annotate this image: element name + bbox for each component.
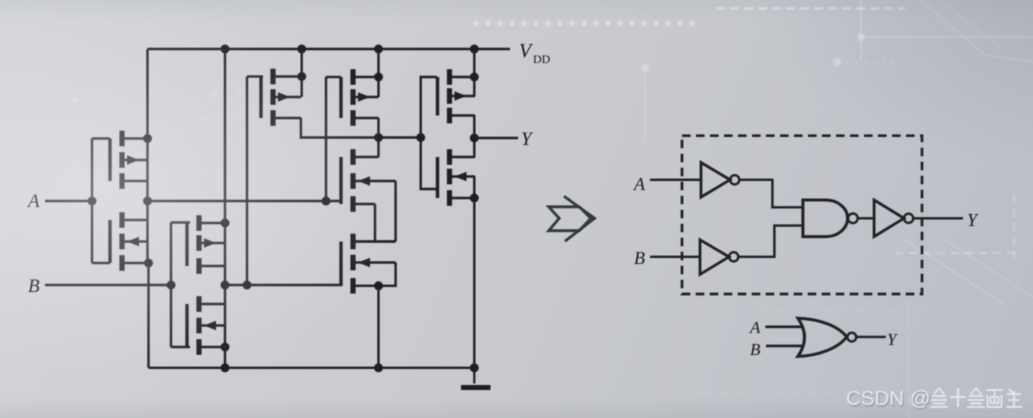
wire NOT-B net to VT8 gate	[225, 284, 342, 286]
svg-text:B: B	[750, 340, 761, 359]
wire VT5 gate lead	[247, 75, 263, 77]
NOR gate G5	[798, 318, 856, 356]
wire VT6 gate lead	[326, 76, 341, 78]
wire VT4 gate lead	[171, 346, 190, 348]
wire input A	[45, 200, 92, 202]
NAND gate G3	[803, 200, 858, 237]
wire VDD rail	[148, 48, 511, 50]
wire A to inverter G1	[650, 179, 701, 181]
wire VT6/VT7 drains	[377, 118, 379, 157]
wire A to NOR	[765, 325, 803, 328]
wire VT7/VT8 series node	[353, 240, 396, 242]
dashed box	[682, 136, 922, 294]
wire input B	[45, 284, 171, 286]
svg-text:B: B	[28, 276, 40, 297]
svg-text:A: A	[633, 174, 646, 194]
wire G1 to NAND top input	[739, 180, 803, 208]
svg-text:Y: Y	[887, 330, 898, 349]
wire VT9 source to VDD	[473, 49, 475, 96]
svg-text:A: A	[26, 191, 40, 212]
arrow chevron (implies)	[549, 196, 595, 241]
wire NOT-A net to VT7 gate	[148, 200, 343, 202]
transistor VT10 (NMOS, output inverter)	[438, 149, 476, 206]
wire column x225 (VT3/VT4 column)	[224, 49, 226, 368]
wire VT3 gate lead	[171, 221, 190, 223]
wire VT10 source to ground	[473, 177, 475, 368]
wire VT6 gate feed	[325, 77, 327, 201]
inverter G4 (output)	[874, 200, 913, 237]
wire VT7 drain down-merge	[374, 204, 376, 242]
wire VT9/VT10 gate feed	[421, 77, 437, 189]
svg-text:B: B	[634, 248, 645, 268]
wire VT6 source to VDD	[377, 49, 379, 97]
transistor VT9 (PMOS, output inverter)	[438, 69, 476, 123]
inverter G1 (A)	[701, 163, 739, 198]
wire VT8 substrate merge	[379, 263, 396, 286]
transistor VT1 (PMOS, A inverter)	[110, 131, 148, 189]
wire VT5 source to VDD	[301, 49, 303, 97]
wire B to NOR	[766, 345, 803, 348]
wire inverter-A gate column	[91, 139, 93, 264]
wire column x148 (VT1/VT2 drain-source column)	[148, 49, 149, 368]
transistor VT5 (PMOS, NAND)	[261, 69, 301, 126]
wire G2 to NAND bottom input	[738, 226, 803, 257]
wire output Y	[474, 137, 518, 139]
wire inverter-B gate column	[170, 223, 172, 348]
svg-text:Y: Y	[967, 210, 979, 230]
transistor VT3 (PMOS, B inverter)	[187, 215, 225, 274]
wire G4 to Y	[913, 217, 963, 219]
watermark CSDN	[846, 387, 1022, 410]
wire NAND to inverter G4	[858, 217, 874, 219]
wire VT2 gate lead	[92, 262, 110, 264]
inverter G2 (B)	[700, 240, 738, 275]
wire VT8 source to ground	[377, 286, 379, 368]
wire ground rail	[149, 367, 478, 369]
ground	[461, 368, 491, 388]
svg-text:A: A	[749, 318, 761, 337]
wire VT5 drain to NAND output node	[301, 118, 421, 138]
svg-text:Y: Y	[521, 129, 534, 150]
transistor VT4 (NMOS, B inverter)	[187, 296, 225, 355]
wire VT9/VT10 drain junction	[473, 116, 475, 158]
transistor VT6 (PMOS, NAND)	[341, 69, 379, 126]
wire NOR to Y	[856, 336, 886, 338]
wire VT7 substrate merge	[394, 181, 396, 242]
svg-text:CSDN @: CSDN @	[846, 387, 931, 410]
wire B to inverter G2	[650, 256, 700, 258]
transistor VT2 (NMOS, A inverter)	[110, 212, 149, 271]
transistor VT7 (NMOS, NAND series top)	[341, 149, 396, 212]
wire VT1 gate lead	[92, 137, 110, 139]
svg-text:DD: DD	[533, 52, 551, 66]
transistor VT8 (NMOS, NAND series bottom)	[341, 234, 396, 294]
svg-text:V: V	[519, 40, 534, 62]
wire VT5 gate feed	[246, 77, 248, 286]
